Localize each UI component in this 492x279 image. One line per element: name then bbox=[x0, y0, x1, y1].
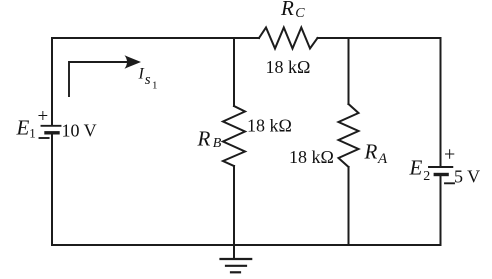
label Is1 bbox=[138, 66, 158, 92]
current arrow Is1 bbox=[69, 55, 141, 96]
wire top from node A to RC left bbox=[52, 37, 259, 39]
wire right side upper (node B down to E2 +) bbox=[440, 38, 442, 166]
wire ground stub bbox=[233, 245, 235, 259]
svg-text:I: I bbox=[138, 66, 145, 83]
value label 5 V for E2 bbox=[454, 167, 480, 187]
label RA bbox=[364, 140, 389, 168]
svg-text:5 V: 5 V bbox=[454, 167, 480, 187]
svg-text:s: s bbox=[145, 72, 151, 88]
wire top from RC right to node B bbox=[318, 37, 441, 39]
resistor RC bbox=[259, 28, 318, 49]
wire left side upper (E1 + up to top left corner) bbox=[51, 38, 53, 125]
minus sign of E2 bbox=[445, 182, 454, 184]
wire left side lower (E1 - down to bottom left corner) bbox=[51, 134, 53, 245]
wire right side lower (E2 - down to bottom right corner) bbox=[440, 175, 442, 245]
ground bbox=[221, 259, 252, 272]
plus sign of E1 bbox=[38, 106, 49, 127]
svg-text:R: R bbox=[280, 0, 294, 20]
svg-text:B: B bbox=[213, 136, 222, 151]
svg-text:E: E bbox=[16, 115, 30, 139]
svg-text:18 kΩ: 18 kΩ bbox=[266, 57, 311, 77]
label RC bbox=[280, 0, 305, 21]
wire RB branch upper (top wire down to RB) bbox=[233, 38, 235, 106]
svg-text:+: + bbox=[444, 144, 455, 166]
value label 18 kOhm for RB bbox=[247, 116, 292, 136]
svg-text:1: 1 bbox=[152, 79, 158, 91]
plus sign of E2 bbox=[444, 144, 455, 166]
svg-text:+: + bbox=[38, 106, 49, 127]
svg-text:18 kΩ: 18 kΩ bbox=[247, 116, 292, 136]
svg-text:R: R bbox=[364, 140, 378, 164]
resistor RA bbox=[339, 104, 359, 167]
label RB bbox=[197, 126, 222, 150]
svg-text:A: A bbox=[377, 151, 388, 167]
label E2 bbox=[409, 156, 431, 185]
svg-text:R: R bbox=[197, 126, 211, 150]
svg-text:E: E bbox=[409, 156, 423, 180]
label E1 bbox=[16, 115, 36, 140]
battery E2 bbox=[429, 167, 452, 175]
value label 10 V for E1 bbox=[62, 121, 97, 141]
value label 18 kOhm for RC bbox=[266, 57, 311, 77]
svg-text:10 V: 10 V bbox=[62, 121, 97, 141]
wire bottom bbox=[52, 244, 441, 246]
value label 18 kOhm for RA bbox=[289, 147, 334, 167]
svg-text:C: C bbox=[295, 6, 305, 21]
wire RA branch lower (RA down to bottom wire) bbox=[348, 167, 350, 245]
wire RB branch lower (RB down to bottom wire) bbox=[233, 166, 235, 245]
wire RA branch upper (top wire down to RA) bbox=[348, 38, 350, 104]
resistor RB bbox=[223, 106, 245, 166]
svg-text:1: 1 bbox=[29, 126, 36, 141]
svg-text:2: 2 bbox=[423, 169, 430, 184]
battery E1 bbox=[42, 126, 61, 133]
svg-text:18 kΩ: 18 kΩ bbox=[289, 147, 334, 167]
minus sign of E1 bbox=[40, 137, 49, 139]
